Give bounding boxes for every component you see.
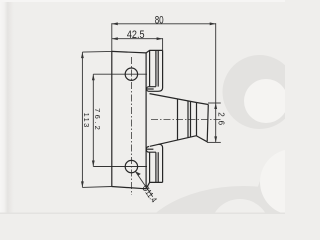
top flange bend line [149, 50, 151, 86]
bottom flange inner double line a [155, 152, 157, 182]
bottom hole [125, 160, 137, 172]
svg-text:42.5: 42.5 [127, 29, 145, 41]
top hole [125, 68, 137, 80]
leader arrow [135, 171, 141, 175]
top flange inner double line a [155, 51, 157, 87]
dim 113 arrows [81, 52, 84, 187]
dim 76.2 arrows [92, 74, 95, 166]
watermark bottom-right gray circle [255, 145, 320, 240]
plate top edge [112, 51, 146, 53]
arm ring line 1 [177, 99, 179, 140]
bottom flange bend line [149, 152, 151, 182]
dim line 42.5 [112, 38, 163, 40]
watermark top-right ring hole [244, 79, 288, 123]
watermark top-right ring [223, 55, 297, 129]
arm end cap left edge [196, 103, 198, 136]
plate bottom edge [112, 187, 147, 189]
arm centerline [151, 119, 221, 121]
arm ring line 2 [187, 101, 189, 138]
plate right edge (bend line) [145, 53, 147, 189]
dim line 113 [81, 52, 83, 187]
watermark bottom inner light circle [210, 199, 270, 240]
top flange inner double line b [157, 51, 159, 87]
page bottom edge dark row [0, 213, 285, 215]
page top edge light row [0, 0, 285, 2]
bottom flange curl mid line [146, 148, 153, 150]
dim line 80 [112, 23, 216, 25]
bottom flange fold edge [146, 182, 163, 188]
page left edge shading [0, 0, 14, 214]
dim 113 top tick [82, 50, 112, 53]
arm end cap bottom edge [197, 136, 208, 142]
arm ring line 3 [190, 101, 192, 137]
dim 80 arrows [112, 22, 216, 25]
svg-text:80: 80 [155, 14, 164, 26]
bottom flange inner double line b [157, 152, 159, 182]
extension/dim line right x=215.7 (80 ext + 26 dim) [215, 23, 217, 142]
watermark bottom ellipse [131, 186, 320, 240]
extension line left (plate left edge up) [111, 23, 113, 51]
centerlines dash-dot [131, 57, 220, 195]
dimension texts [82, 14, 225, 204]
arm top edge [150, 94, 197, 103]
bottom hole centerline horizontal [93, 166, 147, 168]
top flange fold edge [146, 50, 163, 53]
bottom flange curl [146, 146, 156, 152]
top flange curl mid line [147, 88, 154, 90]
dim 113 bottom tick [82, 186, 111, 189]
object lines [112, 50, 209, 188]
watermark bottom-right white hole [260, 149, 320, 215]
dim line 76.2 [92, 74, 94, 166]
svg-text:113: 113 [82, 113, 91, 128]
dim 26 bottom tick [207, 141, 221, 143]
leader line dia 11.4 [135, 171, 152, 197]
extension line 42.5 right [162, 38, 164, 50]
arm end cap top edge [197, 103, 209, 105]
plate left edge [111, 51, 113, 186]
vertical centerline through holes [130, 57, 132, 195]
dim 42.5 arrows [112, 37, 163, 40]
dim 26 top tick [208, 102, 221, 104]
top flange right edge [152, 50, 163, 91]
arm bottom edge [150, 136, 197, 147]
top hole centerline horizontal [93, 73, 147, 75]
arm end cap right edge [207, 105, 208, 142]
dim 26 arrows [214, 103, 217, 142]
bottom flange right edge [159, 144, 163, 182]
top flange curl [147, 87, 156, 92]
